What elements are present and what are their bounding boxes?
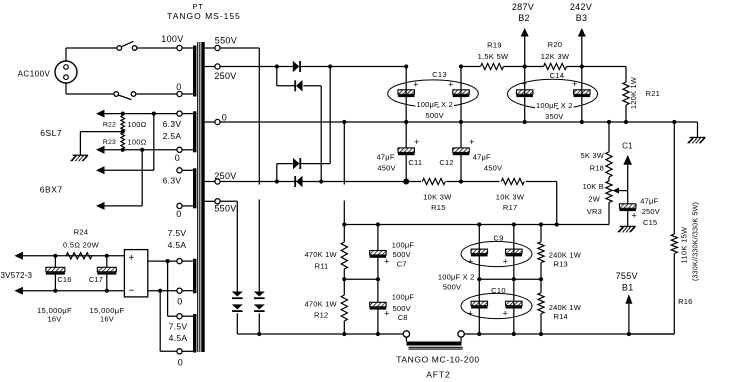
svg-text:350V: 350V bbox=[545, 112, 563, 121]
svg-text:R22: R22 bbox=[103, 121, 116, 128]
wire R15 to R17 bbox=[446, 181, 499, 183]
svg-text:C1: C1 bbox=[622, 142, 633, 151]
diode D4 bbox=[295, 80, 302, 91]
svg-text:R24: R24 bbox=[74, 228, 89, 237]
label AFT2 bbox=[396, 355, 479, 380]
svg-text:100μF X 2: 100μF X 2 bbox=[536, 101, 573, 110]
capacitor C17 bbox=[89, 256, 116, 291]
svg-text:755V: 755V bbox=[616, 271, 638, 281]
label 0 primary bbox=[176, 82, 181, 92]
svg-text:250V: 250V bbox=[214, 171, 236, 181]
arrow 6SL7 heater a bbox=[96, 110, 105, 118]
wire node Y rail bbox=[220, 181, 421, 183]
label 550V bottom bbox=[214, 204, 236, 214]
svg-text:110K 15W: 110K 15W bbox=[680, 226, 689, 263]
wire diode column 2 to B rail bbox=[236, 313, 238, 334]
transformer 7.5V winding 1 bar bbox=[193, 259, 196, 294]
wire 250V top row bbox=[220, 66, 293, 68]
wire 6BX7 heater a bbox=[104, 114, 154, 171]
diode D1a bbox=[254, 292, 265, 299]
svg-text:C7: C7 bbox=[397, 259, 407, 268]
svg-text:+: + bbox=[572, 79, 578, 89]
svg-text:3V572-3: 3V572-3 bbox=[1, 271, 33, 280]
wire R11 R12 mid bbox=[344, 269, 378, 295]
output B2 bbox=[512, 2, 534, 67]
terminal 6.3V a bbox=[177, 111, 193, 116]
svg-text:6SL7: 6SL7 bbox=[40, 128, 62, 138]
terminal 0 HV bbox=[205, 119, 220, 124]
terminal 550V top bbox=[205, 45, 220, 50]
svg-text:120K 1W: 120K 1W bbox=[629, 76, 638, 109]
junction dots 250V bridge bbox=[275, 64, 333, 183]
transformer PT core bbox=[198, 42, 200, 352]
svg-text:+: + bbox=[413, 80, 419, 90]
svg-text:240K 1W: 240K 1W bbox=[549, 303, 582, 312]
junction dots C9 C10 bbox=[477, 277, 516, 281]
wire C9 right column bbox=[513, 225, 515, 335]
resistor R24 bbox=[63, 228, 100, 259]
svg-text:0: 0 bbox=[176, 209, 181, 219]
svg-text:C13: C13 bbox=[432, 70, 447, 79]
label 6.3V winding 2 bbox=[163, 176, 182, 220]
wire ground link bbox=[343, 122, 345, 225]
svg-text:100μF X 2: 100μF X 2 bbox=[438, 273, 475, 282]
potentiometer VR3 bbox=[583, 181, 628, 216]
wire switch to 0 terminal bbox=[136, 93, 177, 95]
capacitor C12 bbox=[439, 122, 502, 182]
label 250V top bbox=[214, 71, 236, 81]
label C9 C10 value bbox=[438, 273, 475, 292]
svg-text:7.5V: 7.5V bbox=[168, 228, 187, 238]
svg-text:−: − bbox=[128, 286, 134, 297]
svg-text:R13: R13 bbox=[554, 260, 568, 269]
wire rail 2 bbox=[344, 224, 609, 226]
wire R12 bottom bbox=[343, 321, 345, 334]
ground heater center bbox=[70, 155, 88, 161]
wire R17 to rail 2 bbox=[526, 182, 557, 225]
svg-text:450V: 450V bbox=[484, 163, 502, 172]
wire C14 right column bbox=[581, 67, 583, 123]
resistor R14 bbox=[538, 293, 582, 321]
svg-text:R18: R18 bbox=[590, 164, 604, 173]
transformer 6.3V winding bar bbox=[193, 111, 196, 152]
arrow 3V572-3 b bbox=[14, 287, 23, 295]
wire C13 left column bbox=[405, 67, 407, 123]
svg-text:C12: C12 bbox=[439, 158, 453, 167]
terminal 550V bottom bbox=[205, 199, 220, 204]
junction dots rail 2 bbox=[342, 222, 559, 226]
label 6.3V 2.5A bbox=[163, 119, 182, 163]
terminal 7.5V1 a bbox=[177, 259, 193, 264]
svg-text:+: + bbox=[384, 309, 390, 319]
svg-text:R15: R15 bbox=[431, 203, 446, 212]
label 250V bottom bbox=[214, 171, 236, 181]
wire C14 left column bbox=[524, 67, 526, 123]
junction dots R22 R23 bbox=[121, 112, 156, 152]
svg-text:550V: 550V bbox=[215, 36, 237, 46]
terminal 100V bbox=[177, 45, 193, 50]
svg-text:R19: R19 bbox=[487, 41, 502, 50]
wire R18 top bbox=[608, 122, 610, 152]
svg-text:500V: 500V bbox=[426, 111, 444, 120]
svg-text:16V: 16V bbox=[100, 315, 114, 324]
wire bridge to 7.5V winding a bbox=[148, 261, 177, 316]
svg-text:0: 0 bbox=[177, 297, 182, 307]
svg-text:C9: C9 bbox=[494, 233, 504, 242]
junction dots R11 R12 bbox=[342, 277, 380, 281]
wire diode column to B rail bbox=[258, 313, 260, 334]
label 550V top bbox=[215, 36, 237, 46]
svg-text:500V: 500V bbox=[393, 304, 411, 313]
wire 0 rail bbox=[220, 122, 697, 138]
AC plug P1 bbox=[18, 61, 77, 83]
wire plug to switch top bbox=[66, 48, 117, 61]
wire switch to 100V terminal bbox=[137, 47, 177, 49]
svg-text:10K 3W: 10K 3W bbox=[496, 193, 525, 202]
svg-text:100Ω: 100Ω bbox=[128, 137, 147, 146]
svg-text:4.5A: 4.5A bbox=[168, 240, 187, 250]
svg-text:TANGO MS-155: TANGO MS-155 bbox=[167, 11, 241, 21]
svg-text:47μF: 47μF bbox=[640, 197, 658, 206]
wire 6SL7 heater a bbox=[104, 113, 177, 115]
svg-text:B3: B3 bbox=[576, 13, 588, 23]
arrow 6BX7 heater a bbox=[96, 166, 105, 174]
svg-text:2W: 2W bbox=[588, 195, 600, 204]
terminal 250V bottom bbox=[205, 179, 220, 184]
svg-text:B2: B2 bbox=[518, 13, 530, 23]
capacitor C14 bbox=[508, 71, 598, 121]
output B1 bbox=[616, 271, 638, 334]
svg-text:PT: PT bbox=[192, 2, 203, 11]
svg-text:100V: 100V bbox=[161, 34, 183, 44]
capacitor C10 bbox=[461, 286, 532, 319]
svg-text:C15: C15 bbox=[643, 218, 657, 227]
terminal 0 primary bbox=[177, 91, 193, 96]
transformer PT secondary bar bbox=[201, 42, 204, 352]
label 7.5V 4.5A w1 bbox=[168, 228, 187, 307]
svg-text:+: + bbox=[128, 253, 134, 264]
svg-text:VR3: VR3 bbox=[587, 207, 602, 216]
transformer 7.5V winding 2 bar bbox=[193, 314, 196, 353]
svg-text:+: + bbox=[468, 257, 474, 267]
wire 6SL7 heater b bbox=[104, 149, 177, 151]
svg-text:0: 0 bbox=[178, 358, 183, 368]
svg-text:+: + bbox=[631, 210, 637, 220]
svg-text:+: + bbox=[468, 309, 474, 319]
label C16 value bbox=[37, 306, 72, 324]
resistor R17 bbox=[496, 178, 525, 212]
svg-text:R17: R17 bbox=[503, 203, 518, 212]
junction dots B rail bbox=[257, 332, 631, 336]
svg-text:+: + bbox=[448, 80, 454, 90]
wire R18 to VR3 bbox=[608, 177, 610, 181]
capacitor C9 bbox=[461, 233, 532, 266]
wire D3 to node X bbox=[301, 66, 406, 68]
ground right bbox=[687, 138, 706, 144]
terminal 6.3V2 b bbox=[177, 203, 193, 208]
output B3 bbox=[570, 2, 592, 67]
svg-text:500V: 500V bbox=[393, 250, 411, 259]
terminal 250V top bbox=[205, 64, 220, 69]
junction dots filament bbox=[53, 254, 109, 293]
wire 550V bottom to diode column bbox=[220, 201, 237, 291]
svg-text:240K 1W: 240K 1W bbox=[549, 251, 582, 260]
svg-text:6BX7: 6BX7 bbox=[40, 184, 63, 194]
wire node X rail bbox=[461, 66, 480, 68]
capacitor C7 bbox=[370, 225, 415, 280]
arrow 6SL7 heater b bbox=[96, 146, 105, 154]
svg-text:2.5A: 2.5A bbox=[163, 131, 182, 141]
resistor R11 bbox=[305, 242, 348, 270]
svg-text:10K 3W: 10K 3W bbox=[423, 193, 452, 202]
wire R14 bottom bbox=[540, 314, 542, 334]
svg-text:(330K//330K//330K 5W): (330K//330K//330K 5W) bbox=[691, 202, 700, 281]
svg-text:C10: C10 bbox=[491, 286, 506, 295]
svg-text:5K 3W: 5K 3W bbox=[580, 151, 604, 160]
svg-text:+: + bbox=[384, 257, 390, 267]
label 100V primary bbox=[161, 34, 183, 44]
wire plug to switch bottom bbox=[66, 83, 114, 94]
svg-text:100μF: 100μF bbox=[392, 293, 415, 302]
wire 550V top to diode column bbox=[220, 48, 259, 292]
wire C9 left column bbox=[478, 225, 480, 335]
label 3V572-3 bbox=[1, 271, 33, 280]
svg-text:0.5Ω 20W: 0.5Ω 20W bbox=[63, 241, 100, 250]
svg-text:4.5A: 4.5A bbox=[169, 333, 188, 343]
resistor R13 bbox=[538, 242, 582, 269]
wire D4 branch bbox=[277, 67, 295, 86]
svg-text:550V: 550V bbox=[214, 204, 236, 214]
svg-text:C17: C17 bbox=[89, 275, 103, 284]
switch S1b bbox=[114, 92, 136, 100]
wire VR3 bottom to rail 2 bbox=[608, 203, 610, 225]
svg-text:+: + bbox=[502, 309, 508, 319]
junction dots node Y rail bbox=[403, 179, 463, 185]
svg-text:500V: 500V bbox=[443, 283, 461, 292]
wire C9 C10 mid rail bbox=[479, 278, 541, 280]
terminal 6.3V b bbox=[177, 147, 193, 152]
bridge rectifier D5 bbox=[124, 250, 147, 297]
label C17 value bbox=[89, 306, 124, 324]
wire R19 to B2 bbox=[504, 66, 544, 68]
node C1 arrow bbox=[622, 142, 633, 165]
svg-text:R20: R20 bbox=[548, 40, 563, 49]
wire R16 to B rail bbox=[629, 254, 674, 335]
label PT transformer title bbox=[167, 2, 241, 21]
diode D2a bbox=[232, 292, 243, 299]
svg-text:250V: 250V bbox=[214, 71, 236, 81]
label 7.5V 4.5A w2 bbox=[169, 322, 188, 368]
capacitor C8 bbox=[370, 279, 415, 334]
svg-text:6.3V: 6.3V bbox=[163, 119, 182, 129]
resistor R16 bbox=[671, 202, 699, 306]
transformer AFT2 terminal a bbox=[403, 331, 409, 337]
wire R16 top bbox=[673, 122, 675, 234]
svg-text:47μF: 47μF bbox=[377, 152, 395, 161]
svg-text:C11: C11 bbox=[408, 158, 422, 167]
wire R20 to R21 bbox=[567, 67, 627, 83]
capacitor C15 bbox=[619, 165, 660, 227]
svg-text:470K 1W: 470K 1W bbox=[305, 250, 338, 259]
transformer AFT2 winding bbox=[406, 337, 462, 349]
svg-text:R11: R11 bbox=[315, 261, 329, 270]
svg-text:TANGO MC-10-200: TANGO MC-10-200 bbox=[396, 355, 479, 365]
wire 6BX7 heater b bbox=[104, 150, 142, 206]
wire R22 R23 midpoint to ground bbox=[80, 132, 122, 156]
diode D3 bbox=[293, 61, 300, 72]
wire R21 to 0 rail bbox=[625, 105, 627, 122]
junction dots 0 rail bbox=[342, 120, 676, 124]
svg-text:R21: R21 bbox=[646, 89, 660, 98]
diode D2b bbox=[232, 304, 243, 311]
wire R13 R14 mid bbox=[540, 263, 542, 293]
terminal 7.5V2 b bbox=[177, 349, 193, 354]
arrow 3V572-3 a bbox=[14, 252, 23, 260]
resistor R23 bbox=[103, 133, 147, 149]
svg-text:16V: 16V bbox=[48, 315, 62, 324]
ground C15 bbox=[617, 227, 636, 233]
svg-text:+: + bbox=[469, 137, 475, 147]
resistor R15 bbox=[422, 178, 452, 212]
svg-text:C14: C14 bbox=[550, 71, 565, 80]
wire bridge to 7.5V winding b bbox=[148, 291, 177, 352]
svg-text:+: + bbox=[414, 137, 420, 147]
svg-text:242V: 242V bbox=[570, 2, 592, 12]
wire node X vertical bbox=[301, 67, 330, 164]
wire filament plus bbox=[23, 255, 125, 257]
svg-text:B1: B1 bbox=[622, 283, 634, 293]
svg-text:100μF X 2: 100μF X 2 bbox=[416, 100, 453, 109]
resistor R20 bbox=[541, 40, 570, 70]
resistor R18 bbox=[580, 151, 612, 177]
diode D6 bbox=[295, 176, 302, 187]
capacitor C13 bbox=[388, 70, 479, 120]
junction dots 7.5V parallel bbox=[158, 259, 170, 293]
svg-text:100μF: 100μF bbox=[392, 241, 415, 250]
resistor R12 bbox=[305, 295, 348, 321]
transformer PT primary winding bar bbox=[193, 46, 196, 97]
transformer 6.3V winding 2 bar bbox=[193, 168, 196, 208]
svg-text:R23: R23 bbox=[103, 139, 116, 146]
svg-text:1.5K 5W: 1.5K 5W bbox=[478, 52, 509, 61]
svg-text:0: 0 bbox=[176, 82, 181, 92]
terminal 7.5V1 b bbox=[177, 288, 193, 293]
junction dots top rail bbox=[404, 64, 584, 68]
switch S1a bbox=[117, 41, 137, 50]
svg-text:7.5V: 7.5V bbox=[169, 322, 188, 332]
svg-text:C8: C8 bbox=[398, 313, 408, 322]
wire D4 to node Y bbox=[303, 86, 321, 182]
svg-text:470K 1W: 470K 1W bbox=[305, 300, 338, 309]
wire R11 top bbox=[343, 225, 345, 243]
svg-text:12K 3W: 12K 3W bbox=[541, 52, 570, 61]
svg-text:R16: R16 bbox=[678, 297, 692, 306]
svg-text:6.3V: 6.3V bbox=[163, 176, 182, 186]
wire C13 right column bbox=[460, 67, 462, 123]
svg-text:0: 0 bbox=[222, 113, 227, 123]
svg-text:AFT2: AFT2 bbox=[426, 369, 450, 379]
svg-text:100Ω: 100Ω bbox=[128, 120, 147, 129]
resistor R22 bbox=[103, 116, 147, 131]
diode D5b bbox=[293, 158, 300, 169]
wire B rail left bbox=[237, 333, 403, 335]
svg-text:287V: 287V bbox=[512, 2, 534, 12]
svg-text:450V: 450V bbox=[377, 163, 395, 172]
wire D5b anode bbox=[277, 164, 293, 182]
arrow 6BX7 heater b bbox=[96, 202, 105, 210]
svg-text:+: + bbox=[503, 257, 509, 267]
svg-text:AC100V: AC100V bbox=[18, 70, 51, 79]
resistor R21 bbox=[623, 76, 660, 109]
label 6SL7 bbox=[40, 128, 62, 138]
capacitor C11 bbox=[377, 122, 423, 182]
wire R13 top bbox=[540, 225, 542, 242]
svg-text:10K B: 10K B bbox=[583, 182, 604, 191]
transformer AFT2 terminal b bbox=[458, 331, 464, 337]
resistor R19 bbox=[478, 41, 509, 70]
diode D1b bbox=[254, 304, 265, 311]
svg-text:0: 0 bbox=[175, 153, 180, 163]
label 6BX7 bbox=[40, 184, 63, 194]
wire filament minus bbox=[23, 290, 125, 292]
svg-text:C16: C16 bbox=[57, 275, 71, 284]
label 0 HV bbox=[222, 113, 227, 123]
svg-text:250V: 250V bbox=[642, 207, 660, 216]
svg-text:R14: R14 bbox=[554, 312, 568, 321]
terminal 7.5V2 a bbox=[177, 314, 193, 319]
terminal 6.3V2 a bbox=[177, 168, 193, 173]
capacitor C16 bbox=[46, 256, 72, 291]
wire B rail right bbox=[464, 333, 674, 335]
svg-text:47μF: 47μF bbox=[473, 152, 491, 161]
svg-text:R12: R12 bbox=[314, 311, 328, 320]
junction dot R13 R14 bbox=[539, 277, 543, 281]
